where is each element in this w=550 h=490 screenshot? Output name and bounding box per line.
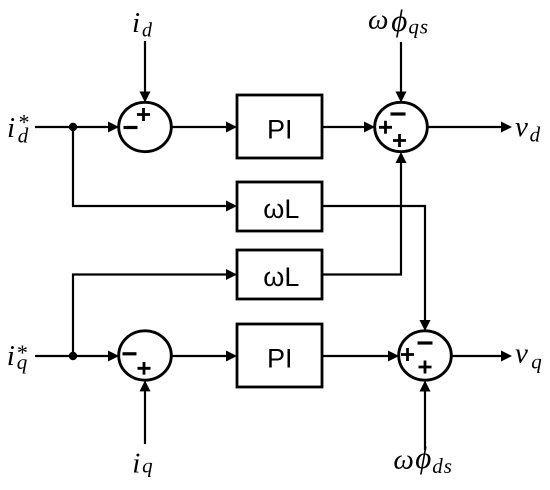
block PI2 <box>237 324 322 387</box>
S3 minus sign <box>123 352 137 355</box>
block wL1 <box>237 182 322 231</box>
svg-text:ϕ: ϕ <box>391 3 407 38</box>
svg-text:ω: ω <box>393 443 413 475</box>
node: junction dot on i_d* line <box>69 123 77 131</box>
summing junction S2 <box>375 102 428 151</box>
svg-text:i: i <box>132 7 140 39</box>
wire: i_d vertical into summing junction S1 <box>144 41 146 93</box>
svg-text:ϕ: ϕ <box>415 440 431 475</box>
S1 minus sign <box>124 126 138 129</box>
summing junction S4 <box>399 331 452 380</box>
S4 plus sign bottom <box>419 361 432 374</box>
summing junction S3 <box>119 331 172 380</box>
S2 plus sign left <box>379 121 392 134</box>
wire: wL1 output right then down into S4 top <box>322 206 425 322</box>
wire: S2 output to v_d <box>427 126 503 128</box>
wire: S4 output to v_q <box>451 355 503 357</box>
svg-text:q: q <box>531 350 542 374</box>
svg-text:i: i <box>7 340 15 372</box>
wire: S1 output into PI1 <box>171 126 228 128</box>
S2 minus sign <box>391 112 406 115</box>
block wL2 <box>237 250 322 299</box>
wire: i_d* horizontal into S1 <box>35 126 110 128</box>
wire: omega phi_ds vertical up into S4 bottom <box>424 390 426 450</box>
block PI1 <box>237 95 322 158</box>
svg-text:ωL: ωL <box>263 262 299 292</box>
svg-text:q: q <box>142 453 153 477</box>
svg-text:v: v <box>515 111 528 143</box>
svg-text:i: i <box>7 112 15 144</box>
svg-text:ω: ω <box>368 4 388 36</box>
svg-text:d: d <box>18 124 29 148</box>
svg-text:PI: PI <box>267 115 293 145</box>
wire: i_q vertical up into S3 bottom <box>144 390 146 444</box>
wire: from node down then right into wL1 <box>73 127 228 206</box>
wire: omega phi_qs vertical into S2 top <box>400 42 402 93</box>
svg-text:ωL: ωL <box>263 194 299 224</box>
wire: PI1 output into S2 <box>322 126 366 128</box>
wire: from node up then right into wL2 <box>73 275 228 357</box>
svg-text:PI: PI <box>267 344 293 374</box>
S3 plus sign <box>138 362 151 375</box>
summing junction S1 <box>119 102 172 151</box>
svg-text:qs: qs <box>408 15 429 39</box>
svg-text:d: d <box>530 123 541 147</box>
S2 plus sign bottom <box>393 134 406 147</box>
svg-text:i: i <box>132 448 140 480</box>
svg-text:d: d <box>142 20 153 42</box>
wire: PI2 output into S4 <box>322 355 390 357</box>
S1 plus sign <box>137 108 150 121</box>
wire: S3 output into PI2 <box>171 355 228 357</box>
wire: wL2 output right then up into S2 bottom <box>322 161 401 275</box>
node: junction dot on i_q* line <box>69 352 77 360</box>
svg-text:v: v <box>515 338 528 370</box>
S4 plus sign left <box>401 348 414 361</box>
wire: i_q* horizontal into S3 <box>35 355 110 357</box>
S4 minus sign <box>418 341 433 344</box>
svg-text:q: q <box>17 350 28 374</box>
svg-text:ds: ds <box>432 454 453 478</box>
